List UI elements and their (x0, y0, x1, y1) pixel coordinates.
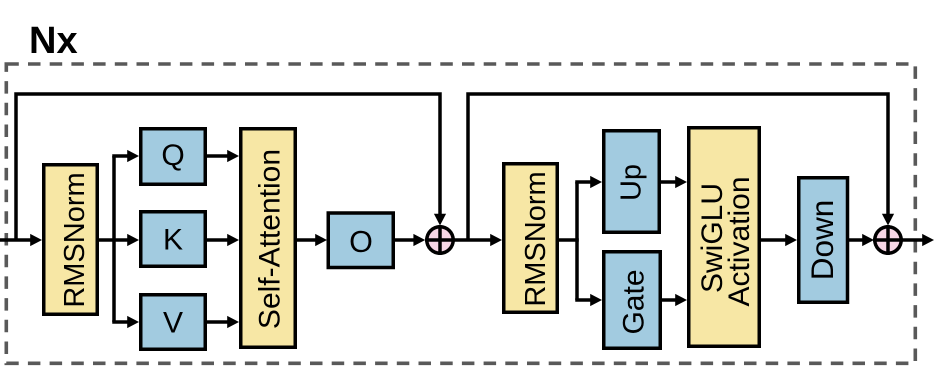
wire Q to Self-Attention (207, 154, 229, 158)
adder 2 plus cross (873, 225, 903, 255)
wire K to Self-Attention (207, 238, 229, 242)
wire Self-Attention to O (297, 238, 317, 242)
arrowhead into adder 2 (862, 234, 874, 246)
wire output (902, 238, 924, 242)
arrowhead into Q (127, 150, 139, 162)
svg-text:Up: Up (616, 164, 648, 201)
wire Gate to SwiGLU (660, 298, 677, 302)
adder 2 circle (875, 227, 901, 253)
wire QKV branch vertical (112, 156, 116, 322)
adder 1 plus cross (425, 225, 455, 255)
dashed layer boundary (6, 64, 915, 363)
arrowhead Q into Self-Attention (227, 150, 239, 162)
arrowhead into O (315, 234, 327, 246)
wire SwiGLU to Down (759, 238, 787, 242)
arrowhead skip 1 into adder (434, 214, 446, 226)
Q block (141, 129, 206, 185)
wire residual skip 2 (468, 94, 888, 240)
wire RMSNorm2 to branch (557, 238, 579, 242)
svg-text:Gate: Gate (618, 269, 651, 334)
arrowhead into Gate (590, 294, 602, 306)
adder 1 circle (427, 227, 453, 253)
svg-text:Self-Attention: Self-Attention (254, 149, 287, 329)
wire Down to adder 2 (849, 238, 864, 242)
svg-text:RMSNorm: RMSNorm (59, 172, 91, 307)
V block (141, 295, 206, 350)
arrowhead into adder 1 (413, 234, 425, 246)
Up block (604, 131, 660, 233)
wire Up to SwiGLU (659, 180, 677, 184)
svg-text:O: O (349, 225, 373, 259)
svg-text:RMSNorm: RMSNorm (520, 171, 552, 306)
K block (141, 212, 206, 267)
RMSNorm block 1 (44, 165, 98, 315)
O block (328, 213, 393, 268)
arrowhead into Up (590, 176, 602, 188)
arrowhead K into Self-Attention (227, 234, 239, 246)
svg-text:Nx: Nx (29, 20, 78, 62)
svg-text:Down: Down (804, 200, 840, 281)
wire Up/Gate branch vertical (575, 182, 579, 300)
arrowhead Gate into SwiGLU (675, 294, 687, 306)
svg-text:Activation: Activation (723, 176, 756, 306)
wire branch to Q (112, 154, 129, 158)
wire input (0, 238, 32, 242)
arrowhead Up into SwiGLU (675, 176, 687, 188)
arrowhead into K (127, 234, 139, 246)
wire O to adder 1 (395, 238, 414, 242)
arrowhead into RMSNorm 2 (490, 234, 502, 246)
arrowhead into V (127, 316, 139, 328)
wire branch to Up (575, 180, 592, 184)
wire V to Self-Attention (207, 320, 229, 324)
wire branch to Gate (575, 298, 592, 302)
wire branch to V (112, 320, 129, 324)
arrowhead into Down (785, 234, 797, 246)
wire RMSNorm1 to K (97, 238, 129, 242)
wire adder 1 to RMSNorm 2 (454, 238, 492, 242)
Self-Attention block (241, 129, 296, 348)
svg-text:K: K (163, 224, 183, 257)
svg-text:V: V (163, 307, 183, 340)
Down block (799, 178, 848, 303)
SwiGLU Activation block (689, 128, 760, 347)
svg-text:Q: Q (161, 139, 184, 172)
arrowhead input to RMSNorm (30, 234, 42, 246)
Gate block (604, 252, 661, 349)
RMSNorm block 2 (504, 164, 558, 313)
wire residual skip 1 (16, 94, 440, 240)
arrowhead V into Self-Attention (227, 316, 239, 328)
arrowhead skip 2 into adder 2 (882, 214, 894, 226)
arrowhead output (922, 234, 934, 246)
